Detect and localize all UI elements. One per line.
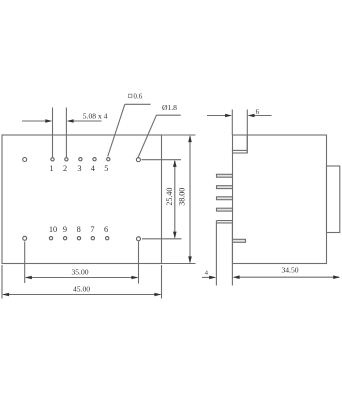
- dimension 38.00 line: [189, 136, 191, 262]
- side view pin 2: [217, 186, 233, 189]
- svg-text:45.00: 45.00: [73, 285, 90, 294]
- dimension 5.08x4 right arrow: [71, 120, 102, 122]
- dimension 35.00 left extension line: [24, 242, 26, 284]
- svg-text:34.50: 34.50: [281, 266, 298, 275]
- dimension 35.00 right extension line: [138, 242, 140, 284]
- leader line hole to dia 1.8 label: [138, 115, 157, 158]
- pin 5: [107, 158, 110, 161]
- dimension 6 left arrow: [207, 115, 229, 117]
- dimension 4 left arrow: [202, 276, 213, 278]
- front view body outline: [2, 135, 162, 264]
- side view right protrusion: [327, 166, 340, 233]
- pin 3: [79, 158, 82, 161]
- svg-text:3: 3: [77, 164, 81, 173]
- pin 4: [93, 158, 96, 161]
- mounting hole bottom-right: [137, 237, 141, 241]
- mounting hole bottom-left: [23, 236, 27, 240]
- svg-text:7: 7: [90, 225, 94, 234]
- pin 8: [77, 237, 80, 240]
- mounting hole top-right: [136, 158, 140, 162]
- dimension 45.00 left extension line: [1, 265, 3, 299]
- dimension 35.00 line: [26, 277, 137, 279]
- dimension 5.08x4 left arrow: [22, 120, 49, 122]
- dimension 25.40 line: [174, 161, 176, 238]
- svg-text:2: 2: [63, 164, 67, 173]
- side view body outline: [233, 135, 327, 264]
- square symbol for 0.6: [128, 94, 131, 97]
- mounting hole top-left: [23, 158, 27, 162]
- svg-text:8: 8: [77, 225, 81, 234]
- dimension 25.40 bottom extension line: [142, 238, 182, 240]
- svg-text:9: 9: [63, 225, 67, 234]
- extension line pin 1: [52, 108, 54, 158]
- dimension 45.00 right extension line: [161, 265, 163, 299]
- leader line pin 5 to square 0.6 label: [108, 104, 125, 156]
- pin 9: [63, 237, 66, 240]
- side view inner tab: [233, 239, 246, 242]
- pin 1: [51, 158, 54, 161]
- svg-text:4: 4: [91, 164, 96, 173]
- svg-text:5: 5: [104, 164, 108, 173]
- svg-text:10: 10: [49, 225, 57, 234]
- dimension 6 right arrow: [251, 115, 271, 117]
- svg-text:35.00: 35.00: [71, 268, 88, 277]
- side view top tab ledge: [233, 150, 248, 153]
- svg-text:4: 4: [205, 269, 209, 276]
- pin 10: [49, 237, 52, 240]
- dimension 25.40 top extension line: [142, 159, 182, 161]
- pin 6: [106, 237, 109, 240]
- dimension 34.50 line with left and right arrows: [236, 276, 339, 278]
- dimension 6 left extension line: [231, 110, 233, 136]
- svg-text:38.00: 38.00: [178, 188, 187, 206]
- side view pin 4: [217, 208, 233, 211]
- svg-text:6: 6: [256, 109, 260, 116]
- svg-text:Ø1.8: Ø1.8: [162, 103, 177, 112]
- dimension 38.00 bottom extension line: [162, 263, 196, 265]
- pin 7: [91, 237, 94, 240]
- side view top tab vertical line: [246, 135, 248, 153]
- svg-text:6: 6: [104, 225, 108, 234]
- svg-text:5.08 x 4: 5.08 x 4: [83, 111, 108, 120]
- dimension 45.00 line: [3, 294, 160, 296]
- svg-text:1: 1: [49, 164, 53, 173]
- side view pin 3: [217, 197, 233, 200]
- side view mounting foot: [216, 220, 232, 222]
- side view pin 1: [217, 174, 233, 177]
- dimension 6 right extension line: [246, 110, 248, 151]
- svg-text:0.6: 0.6: [133, 93, 142, 101]
- dimension 38.00 top extension line: [162, 134, 196, 136]
- svg-text:25.40: 25.40: [165, 188, 174, 206]
- extension line pin 2: [65, 108, 67, 158]
- pin 2: [65, 158, 68, 161]
